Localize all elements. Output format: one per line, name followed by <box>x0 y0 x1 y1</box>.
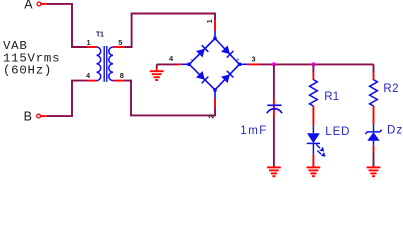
transformer T1 core lines <box>103 46 105 82</box>
pin stub transformer pin 8 <box>113 80 124 82</box>
svg-text:1mF: 1mF <box>240 125 267 137</box>
svg-text:B: B <box>24 110 32 124</box>
ground (bridge minus) <box>156 64 158 67</box>
wire B to transformer pin 4 <box>47 81 87 117</box>
terminal A circle <box>37 2 41 6</box>
LED arrows <box>316 144 325 156</box>
wire output rail <box>259 63 374 65</box>
wire pin8 to bridge bottom <box>124 81 215 116</box>
svg-text:8: 8 <box>120 71 124 80</box>
svg-text:R1: R1 <box>324 91 339 103</box>
zener diode Dz <box>373 125 375 132</box>
pin stub R1 bottom / LED anode <box>312 106 314 126</box>
svg-text:1: 1 <box>86 38 90 47</box>
svg-text:T1: T1 <box>96 32 104 39</box>
wire ground to bridge left <box>157 63 177 65</box>
pin stub bridge pin 2 (bottom) <box>214 99 216 107</box>
pin stub transformer pin 4 <box>87 80 97 82</box>
pin stub R2 bottom / zener cathode <box>373 106 375 125</box>
ground (LED) <box>307 167 321 176</box>
diode D3 (bottom-left edge) <box>196 71 208 83</box>
pin stub transformer pin 1 <box>87 46 97 48</box>
terminal B circle <box>37 114 41 118</box>
svg-text:4: 4 <box>86 71 91 80</box>
wire rail down to capacitor <box>273 64 275 98</box>
LED symbol <box>312 126 314 133</box>
wire pin5 to bridge top <box>124 14 215 48</box>
pin stub bridge pin 3 (right) <box>248 63 259 65</box>
bridge vertex dots <box>188 37 242 92</box>
svg-text:Dz: Dz <box>387 125 403 137</box>
diode D1 (top-left edge) <box>196 45 208 57</box>
pin stub capacitor bottom <box>273 106 275 118</box>
wire zener to ground <box>373 152 375 167</box>
resistor R2 <box>370 80 378 106</box>
svg-text:4: 4 <box>169 54 174 63</box>
transformer T1 secondary winding <box>109 47 113 81</box>
pin stub bridge pin 1 (top) <box>214 20 216 30</box>
svg-text:A: A <box>24 0 33 12</box>
wire A to transformer pin 1 <box>47 4 87 47</box>
resistor R1 <box>310 80 318 106</box>
bridge rectifier diamond <box>181 31 248 99</box>
junction node (R1 branch) <box>311 62 315 66</box>
pin stub bridge pin 4 (left) <box>177 63 181 65</box>
junction node (cap branch) <box>272 62 276 66</box>
wire rail corner down to R2 <box>373 64 375 72</box>
pin stub R1 top <box>312 72 314 80</box>
transformer T1 primary winding <box>97 47 101 81</box>
ground (capacitor) <box>267 167 281 176</box>
svg-text:5: 5 <box>118 38 122 47</box>
pin stub from terminal B <box>41 115 47 117</box>
diode D4 (bottom-right edge) <box>221 71 233 83</box>
pin stub from terminal A <box>41 3 47 5</box>
svg-text:(60Hz): (60Hz) <box>3 64 52 78</box>
wire capacitor to ground <box>273 118 275 168</box>
capacitor C1 plates <box>267 104 281 106</box>
ground (zener) <box>367 167 381 176</box>
pin stub zener anode <box>373 141 375 146</box>
pin stub R2 top <box>373 72 375 80</box>
svg-text:+: + <box>236 57 240 64</box>
pin stub LED cathode to ground <box>312 155 314 168</box>
pin stub transformer pin 5 <box>113 46 124 48</box>
svg-text:LED: LED <box>325 126 350 138</box>
wire rail down to R1 <box>312 64 314 72</box>
pin stub capacitor top <box>273 98 275 105</box>
svg-text:2: 2 <box>207 114 216 118</box>
svg-text:3: 3 <box>251 55 255 64</box>
svg-text:R2: R2 <box>383 83 399 95</box>
svg-text:1: 1 <box>205 19 214 23</box>
source text VAB 115Vrms (60Hz) <box>3 39 60 78</box>
diode D2 (top-right edge) <box>221 45 233 57</box>
